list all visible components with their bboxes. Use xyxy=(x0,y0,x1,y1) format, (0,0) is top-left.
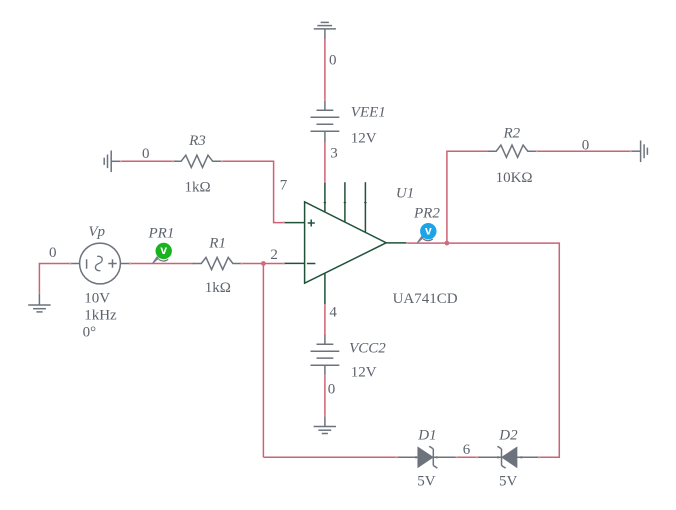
svg-text:12V: 12V xyxy=(351,131,377,147)
svg-text:v: v xyxy=(160,243,167,257)
svg-text:3: 3 xyxy=(330,146,338,162)
svg-text:D2: D2 xyxy=(498,428,518,444)
svg-text:0: 0 xyxy=(142,146,150,162)
svg-text:0: 0 xyxy=(582,137,590,153)
svg-text:VCC2: VCC2 xyxy=(349,340,386,356)
svg-text:1kHz: 1kHz xyxy=(84,308,117,324)
svg-text:4: 4 xyxy=(329,304,337,320)
svg-text:12V: 12V xyxy=(351,365,377,381)
svg-text:10KΩ: 10KΩ xyxy=(496,170,533,186)
svg-text:R3: R3 xyxy=(188,133,206,149)
svg-text:6: 6 xyxy=(463,442,471,458)
svg-text:R2: R2 xyxy=(503,125,521,141)
svg-text:PR2: PR2 xyxy=(413,205,440,221)
svg-text:5V: 5V xyxy=(499,474,518,490)
svg-text:0: 0 xyxy=(329,53,337,69)
svg-text:2: 2 xyxy=(270,247,278,263)
svg-text:0: 0 xyxy=(49,245,57,261)
svg-text:0°: 0° xyxy=(83,325,97,341)
svg-text:v: v xyxy=(425,223,432,237)
svg-text:7: 7 xyxy=(280,177,288,193)
svg-text:U1: U1 xyxy=(396,186,414,202)
svg-text:0: 0 xyxy=(328,381,336,397)
svg-text:R1: R1 xyxy=(208,236,226,252)
svg-text:D1: D1 xyxy=(417,428,436,444)
svg-text:5V: 5V xyxy=(417,474,436,490)
svg-text:1kΩ: 1kΩ xyxy=(205,280,231,296)
svg-text:1kΩ: 1kΩ xyxy=(185,179,211,195)
svg-text:Vp: Vp xyxy=(88,224,105,240)
svg-text:UA741CD: UA741CD xyxy=(393,291,458,307)
svg-text:PR1: PR1 xyxy=(148,225,175,241)
svg-text:VEE1: VEE1 xyxy=(351,105,386,121)
svg-text:10V: 10V xyxy=(84,291,110,307)
